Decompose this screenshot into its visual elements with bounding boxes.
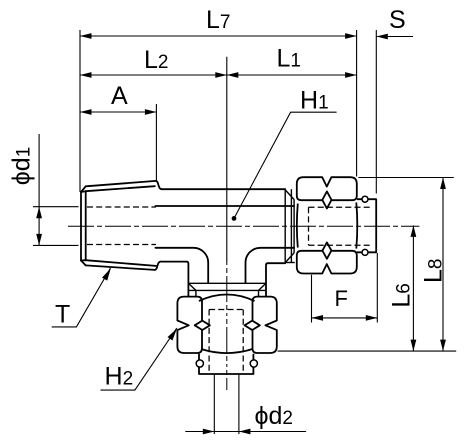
svg-text:F: F [335, 286, 348, 311]
svg-text:A: A [111, 82, 128, 110]
svg-text:S: S [389, 6, 406, 34]
svg-text:T: T [55, 301, 70, 329]
